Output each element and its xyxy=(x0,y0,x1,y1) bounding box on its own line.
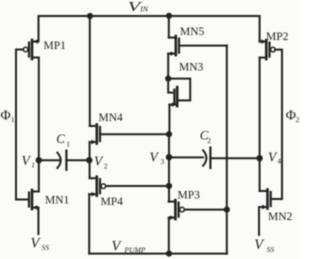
svg-text:MN3: MN3 xyxy=(179,62,204,74)
wire MN2 source stub xyxy=(258,207,260,235)
wire MP2 drain to node V4 xyxy=(259,58,261,159)
wire MP3 gate to VPUMP column xyxy=(184,209,226,211)
transistor MN4 xyxy=(90,125,100,145)
svg-text:1: 1 xyxy=(66,139,70,148)
junction dot VIN / MN5 drain xyxy=(166,13,172,19)
wire V3 down to MP3 drain xyxy=(168,157,170,201)
junction dot MP4 gate / V3 column xyxy=(166,183,172,189)
svg-text:SS: SS xyxy=(42,243,50,252)
svg-text:MP1: MP1 xyxy=(44,40,67,52)
transistor MN5 xyxy=(168,36,179,56)
svg-text:PUMP: PUMP xyxy=(124,246,146,255)
wire MN5 gate to VPUMP column xyxy=(179,45,227,47)
wire C2 to node V4 (crosses VPUMP column, no dot) xyxy=(210,157,259,159)
junction dot MP3 gate / VPUMP column xyxy=(224,207,230,213)
wire MP2 source to VIN rail xyxy=(259,16,261,42)
transistor MP2 xyxy=(260,39,276,59)
junction dot VPUMP / MP3 source xyxy=(166,251,172,257)
wire MN5 drain to VIN xyxy=(168,16,170,38)
junction dot VIN / MN4 drain xyxy=(87,13,93,19)
junction dot node V1 xyxy=(36,157,42,163)
svg-text:2: 2 xyxy=(207,136,211,145)
wire MN3 source to MN4 gate junction xyxy=(168,105,170,135)
svg-text:MP3: MP3 xyxy=(178,190,201,202)
transistor MP1 xyxy=(16,16,39,59)
junction dot MN5 source / MN3 gate-drain xyxy=(165,76,171,82)
node label phi2 xyxy=(286,108,300,123)
svg-text:MP2: MP2 xyxy=(266,31,289,43)
node label V3 xyxy=(150,150,165,167)
transistor MP4 xyxy=(89,177,106,197)
svg-text:1: 1 xyxy=(11,115,15,124)
label C2 xyxy=(200,128,212,145)
wire MN1 drain to V1 xyxy=(38,160,40,191)
junction dot node V3 xyxy=(166,154,172,160)
wire VIN top rail xyxy=(39,15,260,17)
transistor MN2 xyxy=(259,190,271,210)
svg-text:2: 2 xyxy=(296,115,300,124)
wire MP3 source to VPUMP rail xyxy=(168,218,170,254)
node label V2 xyxy=(94,154,108,171)
wire MN4 source to V2 xyxy=(89,142,91,160)
svg-text:SS: SS xyxy=(267,245,275,254)
svg-text:1: 1 xyxy=(31,161,35,170)
wire VPUMP right column (MN5 gate to rail) xyxy=(226,46,228,254)
transistor MN3 xyxy=(168,79,177,107)
wire MN5 source down xyxy=(167,54,169,79)
svg-text:2: 2 xyxy=(104,162,108,171)
svg-text:MN1: MN1 xyxy=(45,195,70,207)
svg-text:MP4: MP4 xyxy=(101,196,124,208)
power label VSS left xyxy=(31,236,50,253)
wire MP4 drain to V2 xyxy=(89,160,91,178)
capacitor C2 xyxy=(203,148,210,168)
wire MN2 drain to V4 xyxy=(259,158,261,191)
wire MN3 drain loop xyxy=(168,79,190,101)
wire MP4 source to VPUMP rail xyxy=(88,194,90,253)
junction dot node V2 xyxy=(86,157,92,163)
transistor MP3 xyxy=(169,200,185,220)
wire MP4 gate to V3 column xyxy=(106,185,169,187)
svg-text:C: C xyxy=(56,131,65,146)
wire V3 to C2 xyxy=(169,156,203,158)
power label VPUMP xyxy=(112,239,146,255)
svg-text:IN: IN xyxy=(139,4,149,13)
junction dot node V4 xyxy=(256,155,262,161)
wire MP1 drain to node V1 xyxy=(33,58,39,161)
svg-text:3: 3 xyxy=(161,157,165,166)
svg-text:MN5: MN5 xyxy=(180,26,205,38)
wire C1 to node V2 xyxy=(66,159,89,161)
node label V4 xyxy=(268,150,281,166)
node label phi1 xyxy=(1,108,15,123)
power label VSS right xyxy=(254,237,274,254)
junction dot MN4 gate / V3 column xyxy=(166,131,172,137)
wire MN4-gate junction to node V3 xyxy=(168,134,170,157)
node label VIN xyxy=(128,0,149,15)
node label V1 xyxy=(22,153,35,170)
svg-text:4: 4 xyxy=(277,157,281,166)
wire V1 to C1 xyxy=(39,159,60,161)
svg-text:Φ: Φ xyxy=(286,108,296,123)
wire phi1 clock line xyxy=(16,50,29,200)
label C1 xyxy=(56,131,70,149)
transistor MN1 xyxy=(29,190,39,234)
wire VPUMP bottom rail xyxy=(89,253,227,255)
wire phi2 clock line (MP2 gate to MN2 gate) xyxy=(271,50,282,199)
svg-text:MN2: MN2 xyxy=(268,211,293,223)
svg-text:MN4: MN4 xyxy=(99,112,124,124)
wire MN4 drain to VIN xyxy=(89,16,91,126)
capacitor C1 xyxy=(57,151,66,170)
wire MN4 gate to node V3 column xyxy=(101,133,169,135)
svg-text:Φ: Φ xyxy=(1,108,11,123)
